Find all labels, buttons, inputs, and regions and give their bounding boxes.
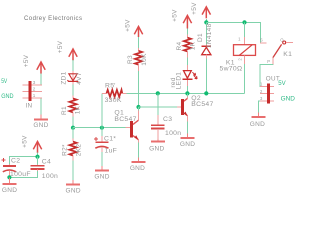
wire +5V to top rail: [205, 19, 207, 23]
wire +5V to ZD1: [72, 60, 74, 71]
ground symbol (C3): [149, 139, 165, 152]
wire Q1 emitter to GND: [138, 143, 140, 158]
ground symbol (R2): [66, 180, 81, 195]
svg-text:+5V: +5V: [125, 19, 132, 32]
svg-text:5V: 5V: [1, 78, 8, 85]
connector X1 IN: [23, 80, 42, 110]
supply +5V symbol (above D1 relay): [191, 2, 211, 18]
supply +5V symbol (above R4): [172, 9, 192, 29]
svg-text:4V7: 4V7: [76, 72, 83, 85]
wire C4 top stub: [37, 157, 39, 165]
wire R5 left to C1 junction: [101, 93, 103, 127]
wire C3 vertical (crosses rail B): [157, 93, 159, 114]
junction node C3 tap on rail A: [156, 91, 160, 95]
wire coil pin 1: [244, 22, 246, 37]
svg-text:100n: 100n: [42, 173, 58, 180]
wire connector X1 pin 1 to GND: [40, 98, 42, 115]
wire coil pin 2 to rail A: [244, 64, 246, 93]
supply +5V symbol (above R3): [125, 19, 143, 37]
wire OUT pin 3 to GND: [258, 101, 260, 113]
zener diode ZD1 4V7: [60, 71, 83, 85]
svg-text:1N4148: 1N4148: [206, 23, 213, 48]
wire R4 to LED1: [186, 58, 188, 66]
svg-text:GND: GND: [149, 145, 164, 152]
svg-text:LED1: LED1: [175, 72, 182, 90]
svg-text:D1: D1: [197, 33, 204, 42]
junction node relay coil pin 1: [242, 20, 246, 24]
svg-text:GND: GND: [33, 122, 48, 129]
svg-text:1: 1: [33, 93, 36, 98]
wire top rail C2 to C4: [9, 157, 37, 165]
LED LED1 red: [170, 65, 197, 89]
svg-text:+5V: +5V: [191, 2, 198, 15]
wire R1 to junction: [72, 116, 74, 127]
transistor Q1 BC547: [114, 107, 138, 143]
resistor R1 1K: [61, 96, 81, 117]
supply +5V symbol (above IN connector): [23, 54, 45, 73]
svg-text:GND: GND: [250, 121, 265, 128]
capacitor C4 100n: [31, 158, 58, 180]
svg-text:C4: C4: [42, 158, 51, 165]
svg-text:Codrey Electronics: Codrey Electronics: [24, 16, 82, 22]
wire +5V to R3: [138, 37, 140, 48]
svg-text:2: 2: [237, 58, 242, 61]
relay K1 coil 5w70: [220, 37, 256, 73]
wire junction to R2: [72, 128, 74, 139]
ground symbol (C1): [94, 166, 109, 181]
svg-text:1K: 1K: [74, 105, 81, 114]
supply +5V symbol (above ZD1): [57, 40, 77, 60]
svg-text:5w70Ω: 5w70Ω: [220, 66, 243, 73]
wire rail A (R5 to relay coil): [127, 92, 245, 94]
svg-text:3: 3: [33, 80, 36, 85]
wire rail B (to Q2 base): [139, 106, 178, 108]
svg-text:+5V: +5V: [172, 9, 179, 22]
svg-text:10K: 10K: [141, 53, 148, 66]
wire ZD1 to R1: [72, 84, 74, 95]
capacitor C1 1uF: [94, 128, 117, 155]
junction node C2 bottom: [7, 175, 11, 179]
ground symbol (Q2 emitter): [180, 133, 195, 148]
resistor R4 1K: [176, 35, 197, 58]
svg-text:*: *: [114, 82, 116, 87]
junction node Q2 collector: [185, 91, 189, 95]
wire +5V to connector X1 pin 3: [40, 74, 42, 85]
diode D1 1N4148: [197, 23, 213, 58]
supply +5V symbol (above C2 C4): [22, 135, 42, 153]
svg-text:1: 1: [238, 37, 241, 42]
svg-text:330K: 330K: [105, 97, 122, 104]
svg-text:C3: C3: [163, 116, 172, 123]
svg-text:S: S: [260, 38, 263, 43]
connector X2 OUT: [260, 76, 280, 104]
svg-text:C2: C2: [11, 158, 20, 165]
wire Q2 emitter to GND: [186, 122, 188, 134]
svg-text:GND: GND: [94, 174, 109, 181]
wire +5V to R4: [186, 29, 188, 35]
wire top rail (to relay coil and contact S): [206, 22, 260, 43]
junction node Q1 collector: [136, 105, 140, 109]
svg-text:+5V: +5V: [23, 54, 30, 67]
svg-text:1uF: 1uF: [105, 148, 118, 155]
svg-text:3: 3: [260, 96, 263, 101]
junction node D1 top: [204, 20, 208, 24]
svg-text:GND: GND: [130, 165, 145, 172]
svg-text:O: O: [280, 37, 284, 42]
svg-text:GND: GND: [281, 95, 296, 102]
svg-text:+5V: +5V: [57, 40, 64, 53]
junction node C4 top: [35, 155, 39, 159]
svg-text:R1: R1: [61, 106, 68, 115]
svg-text:BC547: BC547: [191, 101, 213, 108]
svg-text:GND: GND: [2, 187, 17, 194]
transistor Q2 BC547: [177, 93, 214, 121]
wire D1 cathode: [205, 22, 207, 44]
svg-text:R2*: R2*: [62, 144, 69, 156]
capacitor C2 100uF: [2, 158, 31, 178]
resistor R5* 330K (horizontal): [102, 82, 127, 104]
wire R3 to collector junction: [138, 71, 140, 107]
svg-text:C1*: C1*: [104, 135, 116, 142]
svg-text:IN: IN: [26, 103, 33, 110]
capacitor C3 100n: [151, 115, 181, 140]
wire LED1 to collector junction: [186, 86, 188, 94]
wire contact P to OUT pin 1: [260, 64, 273, 86]
svg-text:GND: GND: [180, 141, 195, 148]
svg-text:2: 2: [260, 89, 263, 94]
svg-text:2: 2: [33, 86, 36, 91]
junction node R1 R2 divider: [71, 126, 75, 130]
resistor R2 2K2: [62, 139, 83, 161]
resistor R3 10K: [127, 48, 148, 71]
svg-text:K1: K1: [283, 51, 292, 58]
wire C1 to GND: [101, 152, 103, 166]
svg-text:GND: GND: [1, 93, 14, 100]
svg-text:5V: 5V: [278, 80, 286, 87]
ground symbol (C2 C4): [2, 177, 17, 194]
wire divider junction to Q1 base rail: [73, 127, 126, 129]
wire bottom rail C4 to C2: [9, 171, 37, 177]
svg-text:100n: 100n: [165, 130, 181, 137]
svg-text:1: 1: [260, 82, 263, 87]
wire R2 to GND: [72, 160, 74, 179]
ground symbol (OUT connector): [250, 112, 266, 128]
svg-text:R4: R4: [176, 41, 183, 50]
wire +5V down to C2/C4 rail: [37, 153, 39, 157]
svg-text:P: P: [267, 59, 270, 64]
ground symbol (Q1 emitter): [130, 157, 146, 172]
svg-text:R3: R3: [127, 55, 134, 64]
svg-text:GND: GND: [66, 187, 81, 194]
svg-text:2K2: 2K2: [76, 144, 83, 157]
wire D1 anode to rail A: [205, 59, 207, 94]
svg-text:ZD1: ZD1: [60, 71, 67, 84]
svg-text:BC547: BC547: [114, 116, 136, 123]
svg-text:1K: 1K: [190, 41, 197, 50]
junction node C1 tap: [100, 126, 104, 130]
svg-text:+5V: +5V: [22, 135, 29, 148]
junction node D1 bottom: [204, 91, 208, 95]
ground symbol (IN connector): [33, 115, 48, 130]
relay K1 contact: [260, 37, 293, 64]
